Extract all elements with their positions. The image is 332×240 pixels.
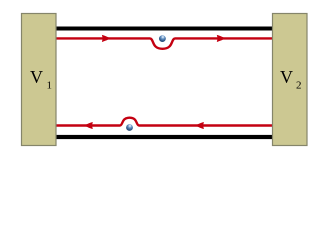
wire: bottom black conductor (56, 135, 272, 139)
svg-text:V: V (30, 67, 43, 87)
arrow: bottom-right current arrow (leftward) (195, 122, 204, 129)
wire: bottom red current path with bump over scatterer (56, 118, 272, 126)
wire: top black conductor (56, 27, 272, 31)
wire: top red current path with dip around scatterer (56, 38, 272, 48)
svg-text:V: V (280, 67, 293, 87)
arrow: top-left current arrow (rightward) (102, 35, 111, 42)
electron ball on top wire (159, 35, 166, 42)
arrow: top-right current arrow (rightward) (217, 35, 226, 42)
electrode plate V2 (273, 14, 308, 146)
arrow: bottom-left current arrow (leftward) (84, 122, 93, 129)
svg-text:1: 1 (47, 80, 53, 92)
electrode plate V1 (22, 14, 57, 146)
electron ball on bottom wire (126, 124, 133, 131)
svg-text:2: 2 (296, 80, 302, 92)
